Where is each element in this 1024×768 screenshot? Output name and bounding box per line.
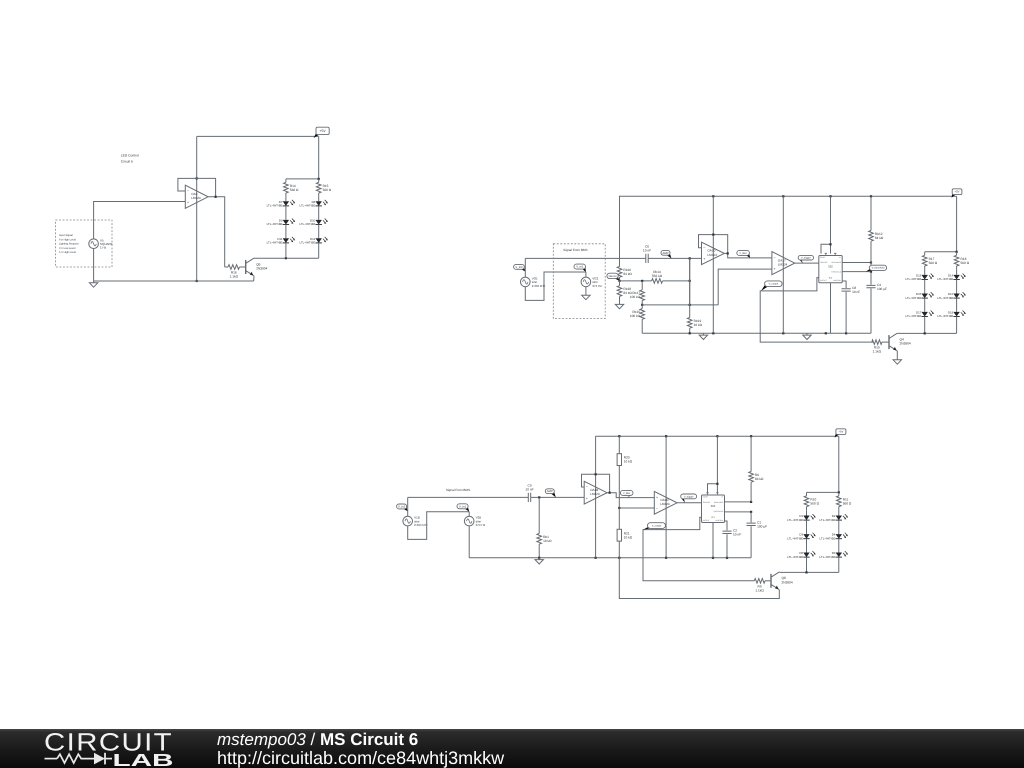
- wire: LED column 1 segment c3: [806, 520, 808, 534]
- pin V+ tick IC1: [716, 493, 718, 495]
- wire: LED column 2 segment c3: [838, 520, 840, 534]
- capacitor C8 10nF: [842, 286, 861, 294]
- junction: OA10 feedback/supply crossing: [712, 234, 714, 236]
- capacitor C1 100uF: [747, 521, 768, 529]
- svg-text:LTL-4HT-BE: LTL-4HT-BE: [267, 204, 283, 208]
- svg-text:560 Ω: 560 Ω: [929, 261, 938, 265]
- op-amp OA17: [772, 252, 795, 275]
- junction: LED column 1 bottom circuit 1: [285, 257, 287, 259]
- svg-text:1 Hz: 1 Hz: [100, 246, 107, 250]
- resistor R19 1.1k: [872, 340, 889, 354]
- net flag V_filter circuit 3: [620, 490, 633, 497]
- svg-text:374 Hz: 374 Hz: [476, 523, 486, 527]
- junction: threshold node c3: [750, 511, 752, 513]
- wire: 555 supply riser circuit 3: [716, 436, 718, 493]
- svg-text:V_threshold: V_threshold: [872, 267, 885, 270]
- wire: LED bank top rail circuit 2: [925, 251, 957, 253]
- wire: C8 to ground rail: [845, 292, 847, 334]
- ground circuit 1: [89, 281, 97, 287]
- junction: rail/R20 riser: [618, 435, 620, 437]
- svg-text:560 Ω: 560 Ω: [810, 501, 819, 505]
- wire: Q8 emitter return: [619, 558, 779, 599]
- wire: LED column 2 segment c2: [956, 298, 958, 312]
- wire: Q8 collector to LED rail: [778, 571, 780, 574]
- svg-text:VBIAS2: VBIAS2: [608, 275, 617, 278]
- wire: op-amp supply vertical circuit 1: [196, 136, 198, 281]
- wire: Q6 collector to LED bank: [254, 257, 319, 259]
- wire: LED column 2 segment c2: [956, 280, 958, 294]
- wire: OA1B feedback loop: [582, 474, 610, 492]
- junction: rail/555 supply: [829, 195, 831, 197]
- voltage source V1B: [403, 516, 428, 527]
- junction: OA10 input bias tap: [689, 257, 691, 259]
- pin V+ tick IC2: [834, 253, 836, 255]
- wire: 555 gnd pin to rail c3: [712, 523, 714, 558]
- wire: OA10 output: [724, 253, 772, 258]
- svg-text:556 kΩ: 556 kΩ: [652, 274, 663, 278]
- junction: rail/OA1D supply: [665, 435, 667, 437]
- svg-text:V_filter: V_filter: [739, 252, 747, 255]
- wire: C2 to ground rail: [726, 534, 728, 558]
- wire: LED col2 top segment c3: [838, 510, 840, 515]
- svg-text:AMP: AMP: [547, 489, 553, 493]
- wire: LED bank bottom rail circuit 2: [898, 332, 957, 334]
- wire: 555 supply riser circuit 2: [830, 196, 832, 253]
- wire: Q4 collector to LED rail: [896, 332, 899, 334]
- svg-text:LTL-4HT-BE: LTL-4HT-BE: [787, 536, 803, 540]
- LED D9 circuit 1 col 1: [267, 219, 295, 227]
- wire: LED column 2 segment c3: [838, 557, 840, 572]
- junction: 555 gnd rail c3: [712, 557, 714, 559]
- junction: 555 reset/vcc tie circuit 3: [716, 483, 718, 485]
- LED D4 circuit 3 col 2: [820, 533, 848, 541]
- resistor R10 560: [804, 492, 819, 510]
- wire: OA1D supply vertical: [665, 436, 667, 558]
- svg-text:560 Ω: 560 Ω: [961, 261, 970, 265]
- svg-text:10 kΩ: 10 kΩ: [694, 323, 703, 327]
- resistor R20 10k (box): [617, 436, 633, 508]
- svg-text:V_filter: V_filter: [623, 492, 631, 495]
- resistor Rb15 100k: [630, 305, 645, 333]
- svg-text:LED Control: LED Control: [121, 154, 139, 158]
- svg-text:LTL-4HT-BE: LTL-4HT-BE: [820, 518, 836, 522]
- svg-text:LTL-4HT-BE: LTL-4HT-BE: [267, 241, 283, 245]
- wire: V1B to signal line: [407, 497, 409, 516]
- svg-text:LTL-4HT-BE: LTL-4HT-BE: [937, 277, 953, 281]
- wire: C4 to ground rail: [870, 289, 872, 334]
- svg-text:84 kΩ: 84 kΩ: [875, 236, 884, 240]
- svg-text:1.1kΩ: 1.1kΩ: [755, 588, 764, 592]
- svg-text:V_trigger: V_trigger: [801, 257, 811, 260]
- LED D6 circuit 3 col 2: [820, 551, 848, 559]
- svg-text:LTL-4HT-BE: LTL-4HT-BE: [905, 277, 921, 281]
- junction: Rb17/Rb15/mid rail: [641, 304, 643, 306]
- junction: LED bank top right circuit 2: [956, 251, 958, 253]
- wire: 555 output to Q8 base: [643, 517, 754, 581]
- LED D11 circuit 1 col 1: [267, 237, 295, 245]
- junction: OA1D V- rail: [665, 557, 667, 559]
- wire: +5V rail circuit 3: [596, 435, 839, 437]
- svg-text:−: −: [703, 246, 705, 250]
- svg-text:+5V: +5V: [320, 129, 327, 133]
- wire: V5 to ground rail: [93, 249, 95, 282]
- svg-text:560 Ω: 560 Ω: [290, 188, 299, 192]
- resistor Rb12 84k: [869, 196, 884, 262]
- svg-text:LM324: LM324: [660, 502, 670, 506]
- svg-text:−: −: [586, 485, 588, 489]
- svg-text:1.1kΩ: 1.1kΩ: [873, 350, 882, 354]
- net flag V_in1 circuit 3: [457, 504, 469, 512]
- wire: +5V drop to LED bank circuit 2: [956, 196, 958, 252]
- wire: signal line circuit 3: [408, 496, 529, 498]
- wire: C1 to ground rail: [750, 526, 752, 558]
- junction: LED bank top right circuit 1: [318, 178, 320, 180]
- svg-text:LTL-4HT-BE: LTL-4HT-BE: [820, 555, 836, 559]
- svg-text:LTL-4HT-BE: LTL-4HT-BE: [787, 518, 803, 522]
- wire: LED column 2 circuit 1: [318, 197, 320, 202]
- svg-text:V_trigger: V_trigger: [684, 495, 694, 498]
- junction: OA1B V- rail: [595, 557, 597, 559]
- LED D1 circuit 3 col 1: [787, 514, 815, 522]
- wire: LED bank bottom rail circuit 3: [780, 571, 839, 573]
- LED D5 circuit 3 col 1: [787, 551, 815, 559]
- svg-text:V_in2: V_in2: [398, 505, 406, 509]
- svg-text:LM324: LM324: [590, 492, 600, 496]
- LED D12 circuit 1 col 2: [299, 237, 327, 245]
- transistor Q8 2N3904: [771, 572, 793, 590]
- svg-text:100 µF: 100 µF: [757, 525, 767, 529]
- wire: mid bias rail circuit 2: [642, 304, 718, 306]
- wire: 555 reset bracket circuit 2: [821, 244, 831, 253]
- net flag V_in2 circuit 3: [397, 504, 408, 511]
- svg-text:Signal From BMS: Signal From BMS: [563, 248, 587, 252]
- svg-text:LTL-4HT-BE: LTL-4HT-BE: [820, 536, 836, 540]
- resistor Rb1 10k: [537, 497, 552, 557]
- op-amp OA10: [702, 242, 725, 264]
- wire: LED column 1 segment c2: [924, 317, 926, 334]
- wire: LED column 1 segment c2: [924, 280, 926, 294]
- wire: VG2 to ground: [585, 287, 587, 294]
- svg-text:LTL-4HT-BE: LTL-4HT-BE: [905, 314, 921, 318]
- wire: LED column 2 segment: [318, 243, 320, 258]
- svg-text:LTL-4HT-BE: LTL-4HT-BE: [299, 204, 315, 208]
- svg-text:Signal From BMS: Signal From BMS: [446, 488, 470, 492]
- ground rail circuit 3: [535, 558, 543, 564]
- resistor Rb16 84k: [617, 196, 632, 281]
- wire: LED bank top rail circuit 1: [286, 178, 319, 180]
- wire: LED column 2 segment: [318, 225, 320, 239]
- resistor R11 560: [837, 492, 852, 510]
- resistor R6 84k: [749, 436, 764, 502]
- svg-text:http://circuitlab.com/ce84whtj: http://circuitlab.com/ce84whtj3mkkw: [217, 748, 505, 768]
- svg-text:10 kΩ: 10 kΩ: [624, 460, 633, 464]
- wire: LED col2 top segment c2: [956, 270, 958, 275]
- svg-text:100 µF: 100 µF: [877, 287, 887, 291]
- svg-text:V_in1: V_in1: [576, 265, 584, 269]
- ground Q4 emitter: [893, 358, 901, 364]
- wire: threshold to C4: [870, 272, 872, 285]
- junction: 555 GND to rail: [825, 332, 827, 334]
- resistor R17 560: [922, 252, 937, 270]
- svg-text:−: −: [774, 256, 776, 260]
- junction: rail/555 riser c3: [716, 435, 718, 437]
- resistor Rb18 84k: [617, 281, 632, 303]
- LED D18 circuit 2 col 2: [937, 311, 965, 319]
- junction: rail/Rb12: [870, 195, 872, 197]
- LED D16 circuit 2 col 2: [937, 292, 965, 300]
- wire: OA2 feedback loop: [178, 178, 216, 196]
- svg-text:374 Hz: 374 Hz: [592, 284, 602, 288]
- svg-text:Input Signal: Input Signal: [59, 234, 73, 237]
- LED D10 circuit 1 col 2: [299, 219, 327, 227]
- svg-text:Lighting Request: Lighting Request: [59, 243, 79, 246]
- wire: 555 control to C8: [842, 281, 846, 288]
- note: Signal From BMS circuit 3: [446, 488, 470, 492]
- wire: LED column 1 segment: [285, 225, 287, 239]
- svg-text:−: −: [187, 189, 189, 193]
- svg-text:100 kΩ: 100 kΩ: [630, 314, 641, 318]
- wire: C6 to OA10 + input: [648, 257, 701, 259]
- svg-text:84 kΩ: 84 kΩ: [623, 272, 632, 276]
- junction: Rb19 to ground rail: [689, 332, 691, 334]
- svg-text:LTL-4HT-BE: LTL-4HT-BE: [937, 296, 953, 300]
- ground rail left circuit 2: [699, 333, 707, 339]
- svg-text:2N3904: 2N3904: [900, 342, 911, 346]
- wire: 555 discharge wire circuit 3: [725, 501, 752, 503]
- wire: V2B to ground rail c3: [468, 526, 470, 558]
- junction: threshold node: [870, 271, 872, 273]
- junction: mid rail/Rb19: [689, 304, 691, 306]
- LED D17 circuit 2 col 1: [905, 311, 933, 319]
- svg-text:+: +: [586, 497, 588, 501]
- timer IC1 555: [702, 495, 725, 523]
- wire: 555 output to Q4 base: [760, 278, 873, 343]
- svg-text:10 nF: 10 nF: [852, 290, 860, 294]
- wire: 555 threshold wire circuit 3: [725, 511, 752, 513]
- transistor Q4 2N3904: [889, 333, 911, 351]
- wire: V5 to OA2 + input: [94, 202, 186, 239]
- net flag V_output circuit 3: [643, 523, 665, 530]
- net flag V_threshold circuit 2: [866, 265, 887, 271]
- wire: OA1D output to 555 trigger: [677, 502, 701, 504]
- junction: Rb1 tap: [538, 496, 540, 498]
- svg-text:LTL-4HT-BE: LTL-4HT-BE: [905, 296, 921, 300]
- wire: +5V rail circuit 1: [197, 135, 319, 137]
- svg-text:10 nF: 10 nF: [733, 533, 741, 537]
- svg-text:560 Ω: 560 Ω: [843, 501, 852, 505]
- svg-text:2.394 kHz: 2.394 kHz: [414, 523, 428, 527]
- svg-text:LTL-4HT-BE: LTL-4HT-BE: [299, 222, 315, 226]
- svg-text:10 nF: 10 nF: [643, 248, 651, 252]
- svg-text:10 kΩ: 10 kΩ: [624, 535, 633, 539]
- net flag V_trigger circuit 3: [681, 494, 697, 503]
- wire: LED column 1 segment c2: [924, 298, 926, 312]
- wire: OA17 supply vertical: [782, 196, 784, 333]
- svg-text:2N3904: 2N3904: [782, 580, 793, 584]
- junction: bias/OA10 vertical: [689, 280, 691, 282]
- wire: OA17 output to 555 trigger: [794, 262, 819, 264]
- LED D13 circuit 2 col 1: [905, 274, 933, 282]
- op-amp OA1B: [584, 481, 607, 504]
- svg-text:LTL-4HT-BE: LTL-4HT-BE: [267, 222, 283, 226]
- junction: LED bank bottom circuit 2: [924, 332, 926, 334]
- LED D2 circuit 3 col 2: [820, 514, 848, 522]
- resistor Rb14 556k: [620, 270, 690, 283]
- svg-text:AMP: AMP: [662, 251, 668, 255]
- wire: OA10 bias vertical: [689, 258, 691, 305]
- svg-text:LM324: LM324: [707, 253, 717, 257]
- junction: OA2 output/feedback: [215, 196, 217, 198]
- ground bias divider circuit 2: [615, 303, 623, 309]
- wire: LED col1 top segment c2: [924, 270, 926, 275]
- svg-text:555: 555: [828, 266, 833, 269]
- junction: OA10 V- to ground rail: [712, 332, 714, 334]
- resistor Rb19 10k: [687, 258, 702, 333]
- svg-text:V_in1: V_in1: [459, 504, 467, 508]
- junction: C2 rail: [726, 557, 728, 559]
- net flag V_output circuit 2: [761, 281, 782, 291]
- wire: LED bank top rail circuit 3: [807, 491, 839, 493]
- resistor R16 1.1k: [225, 265, 246, 279]
- svg-text:10 kΩ: 10 kΩ: [543, 539, 552, 543]
- net flag +5V circuit 3: [835, 429, 846, 438]
- op-amp OA1D: [654, 491, 677, 514]
- junction: 555 reset/vcc tie circuit 2: [829, 243, 831, 245]
- net flag AMP circuit 2: [661, 250, 672, 258]
- wire: 555 reset bracket circuit 3: [708, 484, 718, 493]
- junction: supply/feedback crossing circuit 1: [196, 177, 198, 179]
- timer IC2 555: [819, 256, 842, 283]
- footer text: [217, 730, 505, 768]
- wire: ground rail circuit 3: [469, 557, 751, 559]
- junction: R20/R21/OA1D - input: [618, 507, 620, 509]
- junction: OA17 V- to ground rail: [782, 332, 784, 334]
- wire: LED column 2 segment c3: [838, 539, 840, 553]
- LED D3 circuit 3 col 1: [787, 533, 815, 541]
- junction: Rb1/ground rail: [538, 557, 540, 559]
- CircuitLab logo: [44, 729, 174, 768]
- net flag +5V circuit 1: [314, 127, 330, 138]
- wire: signal line circuit 2: [525, 257, 645, 259]
- svg-text:V_output: V_output: [769, 283, 779, 286]
- svg-text:+: +: [656, 495, 658, 499]
- wire: Q4 emitter to ground: [896, 351, 898, 358]
- LED D8 circuit 1 col 2: [299, 200, 327, 208]
- note: LED Control Circuit 6: [121, 154, 139, 164]
- wire: LED column 1 segment: [285, 243, 287, 258]
- capacitor C4 100uF: [866, 283, 887, 291]
- svg-text:+5V: +5V: [838, 430, 843, 434]
- junction: rail/R6: [750, 435, 752, 437]
- wire: ground rail circuit 1: [94, 280, 254, 282]
- svg-text:−: −: [656, 507, 658, 511]
- svg-text:LTL-4HT-BE: LTL-4HT-BE: [299, 241, 315, 245]
- pin RESET tick IC1: [706, 493, 708, 495]
- wire: VG2 top stub: [585, 272, 587, 277]
- svg-text:84 kΩ: 84 kΩ: [755, 477, 764, 481]
- op-amp OA2: [185, 185, 208, 208]
- svg-text:+: +: [703, 257, 705, 261]
- annotation box: input signal circuit 1: [56, 220, 112, 267]
- capacitor C9 10nF: [525, 483, 533, 502]
- svg-text:mstempo03 / MS Circuit 6: mstempo03 / MS Circuit 6: [217, 730, 418, 749]
- capacitor C2 10nF: [722, 529, 741, 537]
- junction: R21 rail: [618, 557, 620, 559]
- wire: OA1B supply vertical: [595, 436, 597, 558]
- wire: OA17 + input wire: [718, 269, 772, 305]
- wire: LED column 1 segment c3: [806, 557, 808, 572]
- svg-text:+: +: [774, 267, 776, 271]
- resistor R21 10k (box): [617, 508, 633, 558]
- wire: LED col1 top segment c3: [806, 510, 808, 515]
- annotation box: Signal From BMS circuit 2: [553, 244, 605, 319]
- voltage source VG1: [521, 277, 546, 288]
- voltage source VG2: [581, 277, 602, 288]
- wire: Rb12/discharge to threshold: [870, 263, 872, 272]
- junction: rail/OA10 supply: [712, 195, 714, 197]
- svg-text:V_output: V_output: [652, 524, 662, 527]
- svg-text:LM324: LM324: [778, 263, 788, 267]
- junction: rail/OA17 supply: [782, 195, 784, 197]
- junction: OA1B feedback/supply crossing: [595, 473, 597, 475]
- svg-text:1.1kΩ: 1.1kΩ: [230, 275, 239, 279]
- ground rail right circuit 2: [803, 333, 811, 339]
- wire: divider to OA1D - input: [619, 507, 654, 509]
- ground VG2: [582, 294, 590, 300]
- wire: +5V rail drop to LED bank circuit 1: [318, 136, 320, 179]
- net flag AMP circuit 3: [545, 489, 556, 498]
- LED D15 circuit 2 col 1: [905, 292, 933, 300]
- wire: Q6 emitter to ground rail: [253, 276, 255, 281]
- resistor Rb17 100k: [630, 281, 645, 305]
- net flag V_in2 circuit 2: [514, 264, 526, 271]
- footer bar: [0, 729, 1024, 768]
- resistor R9 1.1k: [754, 579, 771, 593]
- wire: 555 threshold wire circuit 2: [842, 271, 871, 273]
- wire: C9 to OA1B + input: [531, 496, 584, 498]
- wire: LED column 2 segment: [318, 206, 320, 220]
- resistor R14 560: [284, 179, 299, 197]
- pin RESET tick IC2: [825, 253, 827, 255]
- transistor Q6 2N3904: [246, 258, 268, 276]
- wire: LED column 1 segment: [285, 206, 287, 220]
- voltage source V5: [89, 238, 113, 249]
- wire: V2B top stub: [468, 512, 470, 517]
- svg-text:560 Ω: 560 Ω: [323, 188, 332, 192]
- junction: LED bank top right circuit 3: [838, 491, 840, 493]
- svg-text:100 kΩ: 100 kΩ: [630, 295, 641, 299]
- svg-text:555: 555: [711, 505, 716, 508]
- svg-text:For High Level: For High Level: [59, 238, 76, 241]
- junction: OA10 output node: [727, 252, 729, 254]
- wire: LED column 1 segment c3: [806, 539, 808, 553]
- LED D14 circuit 2 col 2: [937, 274, 965, 282]
- svg-text:10 nF: 10 nF: [525, 487, 533, 491]
- svg-text:2N3904: 2N3904: [256, 267, 267, 271]
- svg-text:5 V High Level: 5 V High Level: [59, 251, 76, 254]
- note: Signal From BMS circuit 2: [563, 248, 587, 252]
- junction: Rb17 top: [641, 280, 643, 282]
- wire: VG1- to VG2+: [525, 272, 586, 300]
- junction: discharge/R6 c3: [750, 501, 752, 503]
- svg-text:LTL-4HT-BE: LTL-4HT-BE: [937, 314, 953, 318]
- wire: LED column 1 circuit 1: [285, 197, 287, 202]
- svg-text:+: +: [187, 201, 189, 205]
- wire: +5V rail circuit 2: [619, 195, 957, 197]
- capacitor C6 10nF: [643, 244, 651, 263]
- resistor R18 560: [954, 252, 969, 270]
- voltage source V2B: [464, 516, 485, 527]
